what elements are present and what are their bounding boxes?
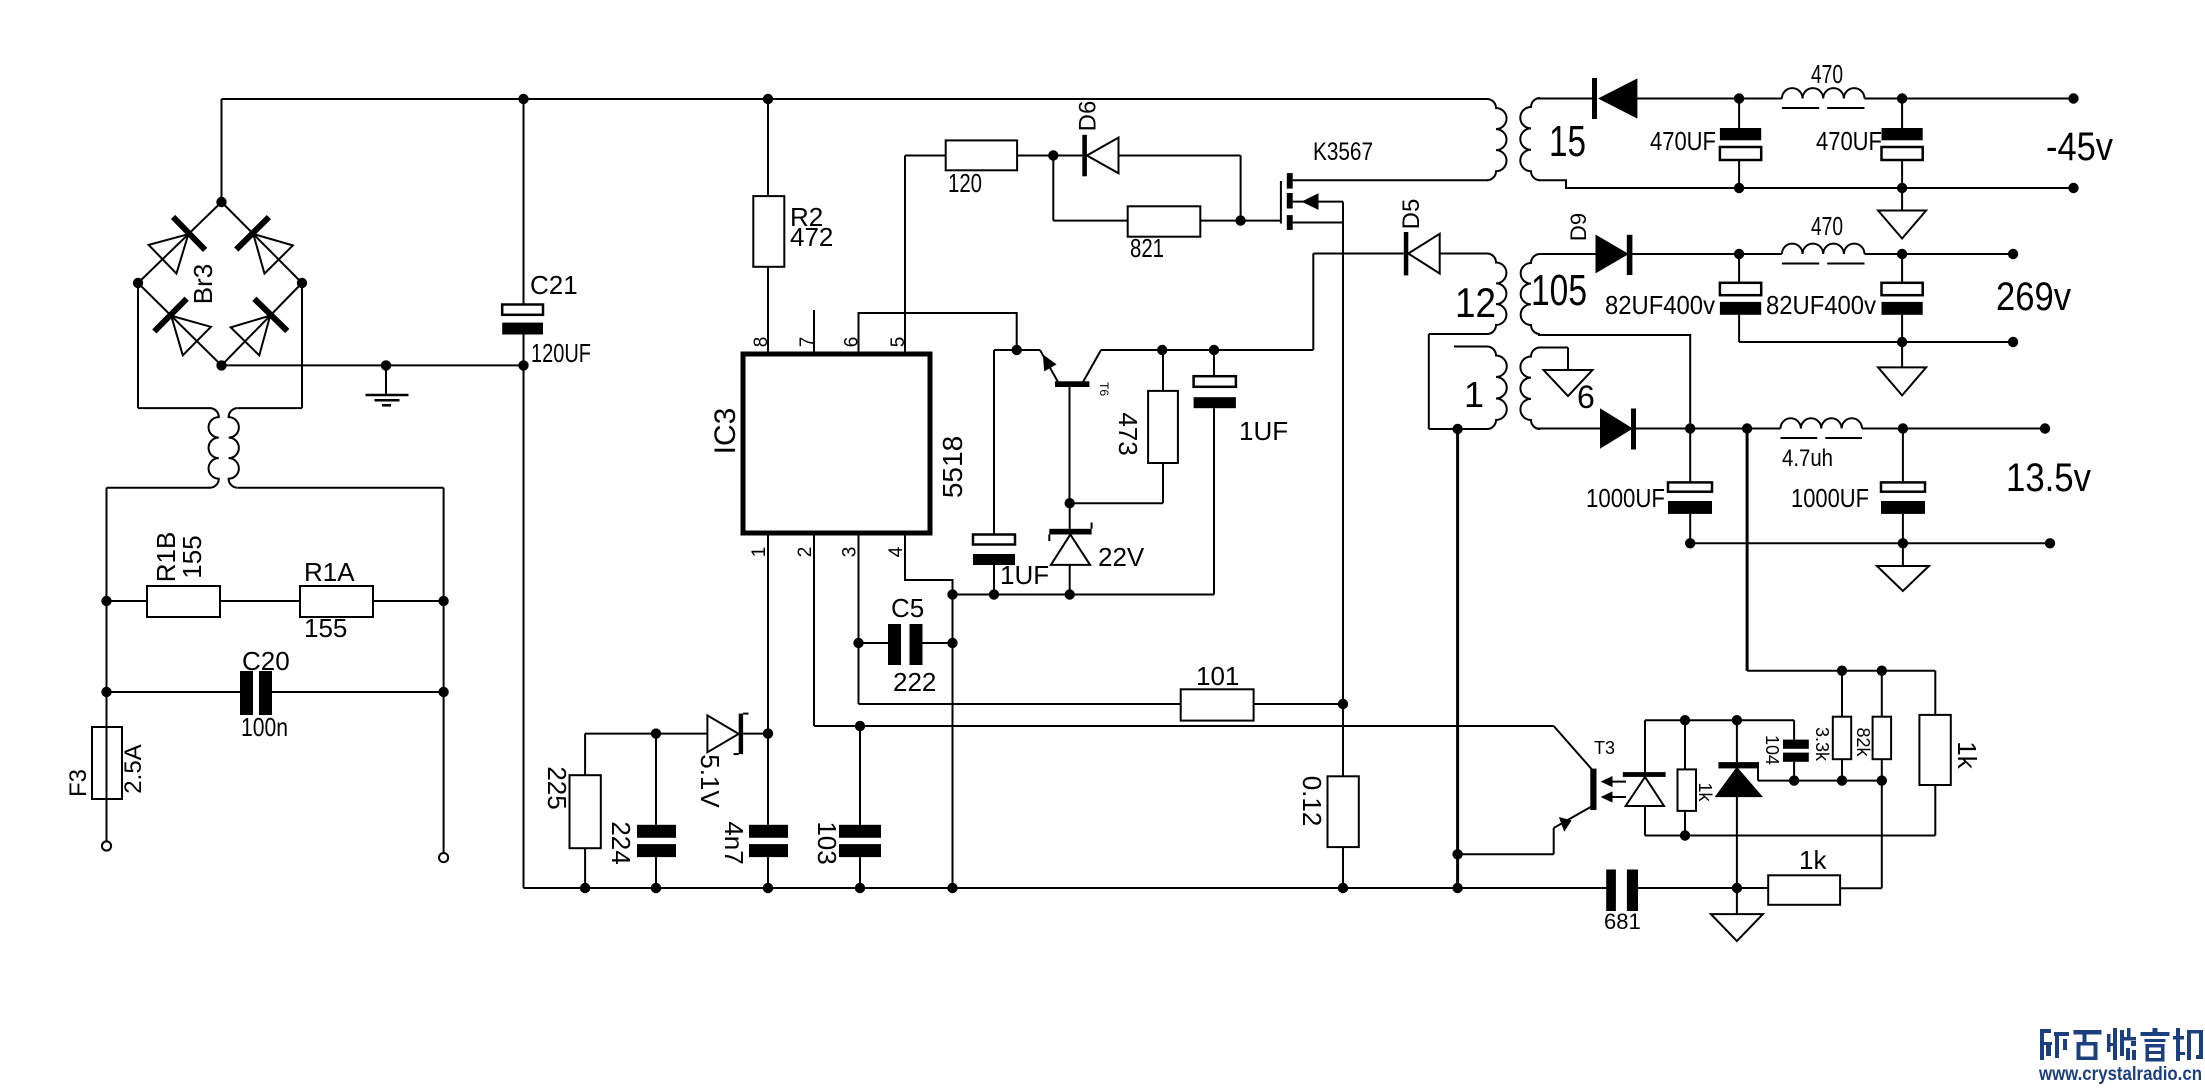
- svg-text:681: 681: [1604, 909, 1641, 934]
- svg-text:120UF: 120UF: [531, 338, 591, 368]
- svg-text:104: 104: [1762, 735, 1782, 765]
- svg-text:100n: 100n: [241, 712, 288, 742]
- svg-text:4.7uh: 4.7uh: [1782, 445, 1833, 472]
- svg-text:D6: D6: [1075, 101, 1102, 132]
- svg-text:222: 222: [893, 667, 936, 697]
- svg-text:12: 12: [1455, 279, 1496, 326]
- svg-text:155: 155: [177, 535, 207, 578]
- svg-text:5518: 5518: [937, 436, 968, 498]
- svg-text:101: 101: [1196, 661, 1239, 691]
- svg-text:www.crystalradio.cn: www.crystalradio.cn: [2038, 1063, 2202, 1085]
- svg-text:103: 103: [812, 821, 842, 864]
- svg-text:470UF: 470UF: [1650, 126, 1716, 156]
- svg-text:D5: D5: [1398, 199, 1425, 230]
- svg-text:4n7: 4n7: [719, 821, 749, 864]
- svg-text:1k: 1k: [1799, 845, 1827, 875]
- svg-text:1UF: 1UF: [1000, 560, 1049, 590]
- svg-text:4: 4: [886, 546, 907, 557]
- svg-text:F3: F3: [65, 769, 92, 797]
- svg-text:2: 2: [795, 547, 816, 558]
- svg-text:82k: 82k: [1853, 727, 1873, 757]
- svg-text:2.5A: 2.5A: [120, 744, 147, 793]
- svg-text:82UF400v: 82UF400v: [1766, 290, 1876, 320]
- svg-text:472: 472: [790, 222, 833, 252]
- svg-text:13.5v: 13.5v: [2006, 456, 2091, 500]
- svg-text:1UF: 1UF: [1239, 416, 1288, 446]
- svg-text:Br3: Br3: [188, 264, 218, 304]
- svg-text:1k: 1k: [1952, 741, 1982, 769]
- svg-text:470: 470: [1811, 59, 1843, 89]
- svg-text:-45v: -45v: [2046, 125, 2113, 169]
- svg-text:C20: C20: [242, 646, 290, 676]
- svg-text:R1A: R1A: [304, 557, 355, 587]
- svg-text:473: 473: [1113, 412, 1143, 455]
- svg-text:82UF400v: 82UF400v: [1605, 290, 1715, 320]
- svg-text:8: 8: [751, 337, 772, 348]
- svg-text:1: 1: [1464, 374, 1484, 415]
- svg-text:C21: C21: [530, 270, 578, 300]
- svg-text:821: 821: [1130, 233, 1164, 263]
- svg-text:15: 15: [1549, 117, 1586, 166]
- svg-text:D9: D9: [1566, 213, 1591, 241]
- svg-text:IC3: IC3: [709, 408, 742, 455]
- svg-text:1k: 1k: [1695, 782, 1715, 802]
- svg-text:225: 225: [542, 766, 572, 809]
- svg-text:1000UF: 1000UF: [1791, 483, 1869, 513]
- svg-text:T6: T6: [1097, 382, 1111, 396]
- svg-text:5.1V: 5.1V: [695, 754, 725, 808]
- svg-text:105: 105: [1531, 266, 1587, 315]
- svg-text:1: 1: [749, 547, 770, 558]
- svg-text:0.12: 0.12: [1297, 776, 1327, 827]
- svg-text:K3567: K3567: [1313, 138, 1373, 166]
- svg-text:120: 120: [948, 168, 982, 198]
- svg-text:269v: 269v: [1996, 275, 2071, 319]
- svg-text:3: 3: [840, 547, 861, 558]
- svg-text:470: 470: [1811, 211, 1843, 241]
- svg-text:155: 155: [304, 613, 347, 643]
- svg-text:22V: 22V: [1098, 542, 1145, 572]
- svg-text:224: 224: [606, 821, 636, 864]
- svg-text:T3: T3: [1594, 738, 1615, 758]
- svg-text:1000UF: 1000UF: [1586, 483, 1665, 513]
- svg-text:C5: C5: [891, 593, 924, 623]
- svg-text:3.3k: 3.3k: [1812, 727, 1832, 762]
- svg-text:470UF: 470UF: [1816, 126, 1882, 156]
